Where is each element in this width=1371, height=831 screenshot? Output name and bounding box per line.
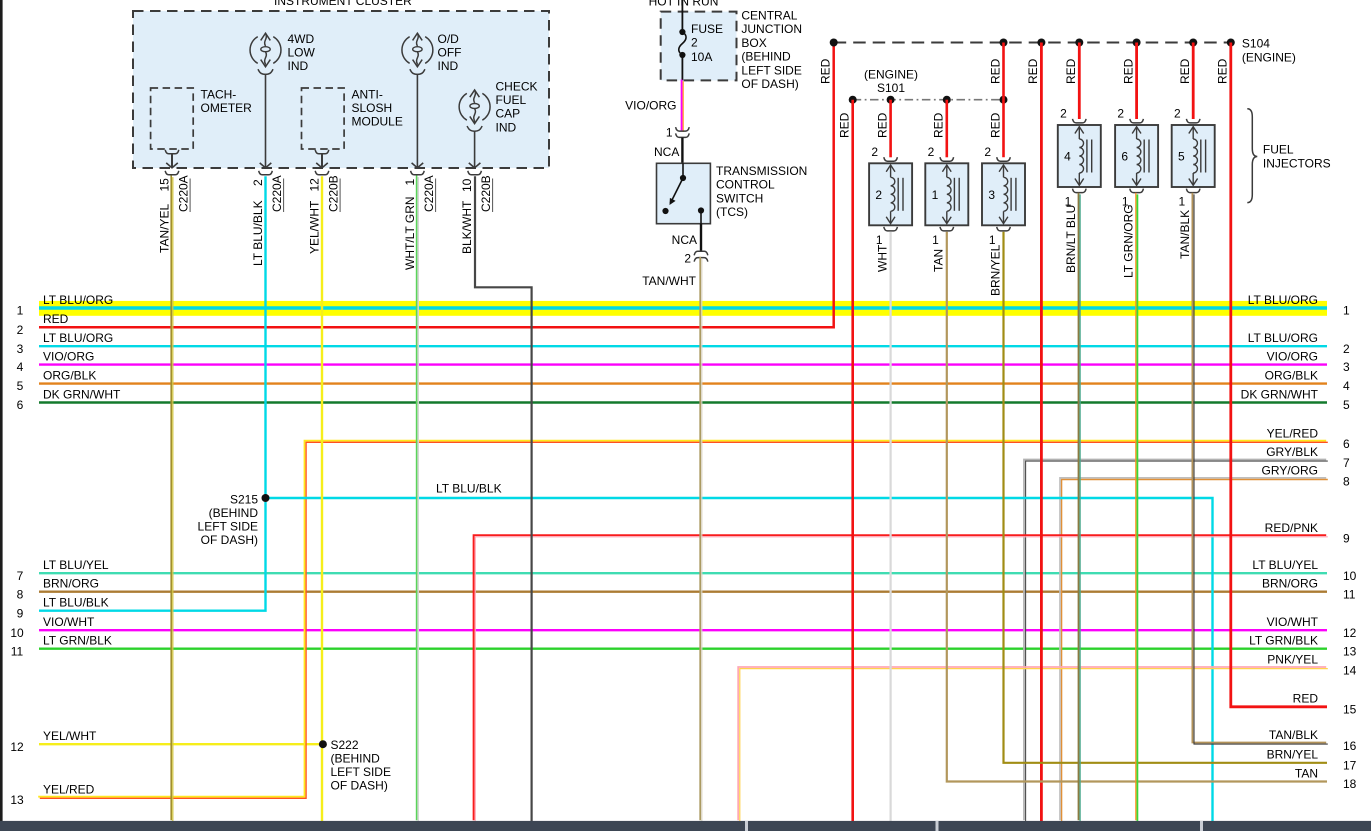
svg-text:RED: RED — [1216, 58, 1230, 84]
svg-text:11: 11 — [11, 644, 24, 658]
svg-text:5: 5 — [1178, 150, 1185, 164]
wire RED S104 drop to bottom — [1040, 43, 1043, 822]
svg-text:12: 12 — [308, 178, 322, 192]
wire LT BLU/YEL (row 7 / right 10) — [39, 572, 1327, 574]
fuel injector 1 — [925, 157, 968, 231]
svg-text:8: 8 — [1343, 474, 1350, 488]
svg-text:RED: RED — [875, 112, 889, 138]
svg-text:C220B: C220B — [479, 175, 493, 212]
svg-text:CAP: CAP — [496, 107, 521, 121]
svg-text:RED: RED — [988, 112, 1002, 138]
svg-text:GRY/ORG: GRY/ORG — [1262, 464, 1318, 478]
wire BRN/YEL from injector 3 pin 1 to right edge (right 17) — [1004, 232, 1328, 763]
junction on S104 at x=1041.4 — [1037, 39, 1045, 47]
junction on S104 at x=833.7 — [830, 39, 838, 47]
svg-text:LEFT SIDE: LEFT SIDE — [741, 63, 801, 77]
svg-text:LT BLU/BLK: LT BLU/BLK — [436, 482, 502, 496]
svg-text:GRY/BLK: GRY/BLK — [1266, 445, 1318, 459]
svg-text:2: 2 — [1343, 342, 1350, 356]
splice S215 — [262, 494, 270, 502]
svg-text:OF DASH): OF DASH) — [331, 779, 388, 793]
svg-text:RED: RED — [932, 112, 946, 138]
svg-text:7: 7 — [17, 569, 24, 583]
splice S222 — [319, 740, 327, 748]
svg-text:18: 18 — [1343, 777, 1357, 791]
svg-text:10: 10 — [10, 626, 24, 640]
svg-text:IND: IND — [438, 59, 459, 73]
inline connector at TCS pin 1 — [676, 127, 690, 137]
central junction box label — [741, 9, 802, 92]
fuel injector 2 — [869, 157, 912, 231]
svg-text:TAN: TAN — [932, 249, 946, 272]
wire RED (row 2) to S104 — [39, 44, 834, 327]
wire RED S104 to injector 6 — [1135, 43, 1138, 120]
splice bus S104 (ENGINE) — [834, 42, 1231, 44]
anti-slosh output lead and connector at cluster edge — [315, 150, 329, 175]
svg-text:BRN/YEL: BRN/YEL — [1267, 748, 1319, 762]
svg-text:4: 4 — [17, 360, 24, 374]
svg-text:LEFT SIDE: LEFT SIDE — [198, 520, 258, 534]
svg-text:IND: IND — [496, 121, 517, 135]
svg-text:(BEHIND: (BEHIND — [331, 752, 381, 766]
bottom panel bar — [0, 821, 1371, 831]
wire RED S104 to S101 and injector 3 — [1002, 43, 1005, 158]
TCS label — [716, 164, 807, 219]
svg-text:C220A: C220A — [270, 175, 284, 212]
svg-text:8: 8 — [17, 587, 24, 601]
svg-text:3: 3 — [1343, 360, 1350, 374]
svg-text:DK GRN/WHT: DK GRN/WHT — [43, 387, 121, 401]
svg-text:VIO/ORG: VIO/ORG — [1267, 349, 1318, 363]
svg-text:ORG/BLK: ORG/BLK — [43, 368, 96, 382]
svg-text:CENTRAL: CENTRAL — [741, 9, 797, 23]
svg-text:CONTROL: CONTROL — [716, 178, 775, 192]
svg-text:S222: S222 — [331, 738, 359, 752]
svg-text:OF DASH): OF DASH) — [201, 533, 258, 547]
svg-text:2: 2 — [251, 179, 265, 186]
svg-text:16: 16 — [1343, 739, 1357, 753]
junction on S104 at x=1079.3 — [1075, 39, 1083, 47]
svg-text:OFF: OFF — [438, 46, 462, 60]
svg-text:RED: RED — [1178, 58, 1192, 84]
svg-text:9: 9 — [1343, 532, 1350, 546]
svg-text:TACH-: TACH- — [201, 88, 237, 102]
svg-text:7: 7 — [1343, 456, 1350, 470]
wire YEL/RED (row 13) — [38, 441, 1326, 797]
svg-text:FUEL: FUEL — [1263, 143, 1294, 157]
4WD LOW bulb output lead and connector at cluster edge — [259, 74, 273, 175]
fuel injector 3 — [982, 157, 1025, 231]
svg-text:YEL/WHT: YEL/WHT — [308, 200, 322, 254]
fuel injector 4 — [1058, 119, 1101, 193]
svg-text:PNK/YEL: PNK/YEL — [1267, 653, 1318, 667]
svg-text:OMETER: OMETER — [201, 101, 253, 115]
svg-text:RED: RED — [819, 58, 833, 84]
svg-text:DK GRN/WHT: DK GRN/WHT — [1241, 387, 1319, 401]
svg-text:SWITCH: SWITCH — [716, 191, 763, 205]
svg-text:LT BLU/BLK: LT BLU/BLK — [251, 200, 265, 266]
svg-text:1: 1 — [666, 126, 673, 140]
fuel injector 6 — [1115, 119, 1158, 193]
svg-text:RED: RED — [1121, 58, 1135, 84]
svg-text:LOW: LOW — [288, 46, 316, 60]
svg-text:TAN: TAN — [1295, 766, 1318, 780]
svg-text:YEL/RED: YEL/RED — [43, 782, 95, 796]
svg-text:10: 10 — [460, 178, 474, 192]
svg-text:2: 2 — [691, 36, 698, 50]
svg-text:TAN/WHT: TAN/WHT — [642, 274, 696, 288]
svg-text:LT BLU/YEL: LT BLU/YEL — [1252, 558, 1318, 572]
svg-text:WHT: WHT — [875, 244, 889, 272]
svg-text:RED/PNK: RED/PNK — [1265, 521, 1318, 535]
svg-text:4: 4 — [1064, 150, 1071, 164]
svg-text:INSTRUMENT CLUSTER: INSTRUMENT CLUSTER — [274, 0, 412, 8]
svg-text:RED: RED — [1293, 692, 1319, 706]
bottom bar separator 2 — [936, 821, 939, 831]
svg-text:S215: S215 — [230, 493, 258, 507]
tachometer output lead and connector at cluster edge — [165, 150, 179, 175]
wire DK GRN/WHT (row 6) — [39, 401, 1327, 403]
svg-text:RED: RED — [838, 112, 852, 138]
instrument cluster box — [133, 11, 549, 168]
svg-text:9: 9 — [17, 606, 24, 620]
svg-text:SLOSH: SLOSH — [352, 101, 393, 115]
svg-text:BRN/ORG: BRN/ORG — [1262, 577, 1318, 591]
svg-text:4: 4 — [1343, 379, 1350, 393]
svg-text:2: 2 — [984, 145, 991, 159]
svg-text:YEL/RED: YEL/RED — [1267, 426, 1319, 440]
svg-text:3: 3 — [17, 342, 24, 356]
tachometer (dashed box) — [151, 88, 194, 149]
junction on S104 at x=1003.5 — [1000, 39, 1008, 47]
svg-text:O/D: O/D — [438, 32, 460, 46]
svg-text:1: 1 — [17, 304, 24, 318]
wire VIO/WHT (row 10 / right 12) — [39, 629, 1327, 631]
junction on S101 at x=890.6 — [887, 96, 895, 104]
svg-text:NCA: NCA — [654, 145, 679, 159]
junction on S101 at x=1003.5 — [1000, 96, 1008, 104]
svg-text:1: 1 — [1179, 195, 1186, 209]
svg-text:RED: RED — [1026, 58, 1040, 84]
svg-text:15: 15 — [158, 178, 172, 192]
svg-text:1: 1 — [1343, 304, 1350, 318]
4WD LOW indicator bulb — [250, 32, 315, 74]
svg-text:C220B: C220B — [327, 175, 341, 212]
wire VIO/ORG (row 4) — [39, 363, 1327, 365]
svg-text:6: 6 — [1343, 437, 1350, 451]
svg-text:(ENGINE): (ENGINE) — [1242, 51, 1296, 65]
svg-text:BRN/ORG: BRN/ORG — [43, 577, 99, 591]
wire LT BLU/ORG (row 3) — [39, 345, 1327, 347]
svg-text:LT BLU/ORG: LT BLU/ORG — [43, 293, 113, 307]
O/D OFF bulb output lead and connector at cluster edge — [411, 74, 425, 175]
NCA wire out of TCS — [700, 224, 702, 251]
svg-text:11: 11 — [1343, 587, 1356, 601]
wire WHT from injector 2 pin 1 — [889, 232, 891, 821]
svg-text:3: 3 — [988, 188, 995, 202]
fuel injector 5 — [1172, 119, 1215, 193]
svg-text:10: 10 — [1343, 569, 1357, 583]
svg-text:TAN/BLK: TAN/BLK — [1178, 210, 1192, 259]
svg-text:BRN/YEL: BRN/YEL — [988, 244, 1002, 296]
wire WHT/LT GRN from O/D OFF pin 1 — [416, 176, 418, 821]
svg-text:4WD: 4WD — [288, 32, 315, 46]
svg-text:2: 2 — [1060, 107, 1067, 121]
wire VIO/ORG from fuse to TCS — [681, 80, 683, 131]
wire GRY/BLK (right 7) — [1024, 460, 1326, 821]
wire RED S101 to injector 2 — [889, 100, 892, 158]
svg-text:S104: S104 — [1242, 37, 1270, 51]
wire LT BLU/BLK branch from S215 — [266, 498, 1213, 821]
svg-text:RED: RED — [1064, 58, 1078, 84]
O/D OFF indicator bulb — [402, 32, 462, 74]
wire from HOT IN RUN into fuse — [681, 0, 683, 32]
svg-text:VIO/WHT: VIO/WHT — [1267, 615, 1319, 629]
svg-text:LT BLU/ORG: LT BLU/ORG — [1248, 331, 1318, 345]
svg-text:NCA: NCA — [672, 233, 697, 247]
svg-text:LT BLU/ORG: LT BLU/ORG — [1248, 293, 1318, 307]
svg-text:S101: S101 — [877, 81, 905, 95]
fuse 2 10A — [679, 22, 723, 80]
wire GRY/ORG (right 8) — [1060, 478, 1326, 820]
svg-text:6: 6 — [17, 398, 24, 412]
wire RED S104 to right edge (right 15) — [1231, 43, 1327, 707]
svg-text:2: 2 — [1174, 107, 1181, 121]
wire TAN from injector 1 pin 1 to right edge (right 18) — [947, 232, 1327, 782]
svg-text:1: 1 — [932, 233, 939, 247]
svg-text:15: 15 — [1343, 702, 1357, 716]
wire LT BLU/BLK from 4WD LOW pin 2 to S215 — [264, 176, 266, 498]
svg-text:2: 2 — [1117, 107, 1124, 121]
central junction box — [661, 12, 737, 81]
svg-text:C220A: C220A — [177, 175, 191, 212]
anti-slosh module (dashed box) — [302, 88, 345, 149]
svg-text:(ENGINE): (ENGINE) — [864, 68, 918, 82]
svg-text:BLK/WHT: BLK/WHT — [460, 200, 474, 254]
wire RED/PNK (right 9) — [474, 535, 1327, 820]
bottom bar separator 1 — [745, 821, 748, 831]
wire BLK/WHT from CHECK FUEL CAP pin 10 — [475, 176, 532, 821]
svg-text:RED: RED — [988, 58, 1002, 84]
svg-text:C220A: C220A — [422, 175, 436, 212]
wire ORG/BLK (row 5) — [39, 382, 1327, 384]
wire RED S101 feed from S104 tap to bottom — [851, 100, 854, 821]
svg-text:TAN/BLK: TAN/BLK — [1269, 728, 1318, 742]
transmission control switch (TCS) — [657, 163, 711, 223]
wire TAN/WHT from TCS pin 2 — [699, 257, 701, 821]
svg-text:5: 5 — [17, 379, 24, 393]
svg-text:(BEHIND: (BEHIND — [209, 506, 259, 520]
svg-text:5: 5 — [1343, 398, 1350, 412]
junction on S101 at x=946.8 — [943, 96, 951, 104]
svg-text:BRN/LT BLU: BRN/LT BLU — [1064, 205, 1078, 273]
svg-text:6: 6 — [1121, 150, 1128, 164]
svg-text:TRANSMISSION: TRANSMISSION — [716, 164, 807, 178]
svg-text:OF DASH): OF DASH) — [741, 77, 798, 91]
svg-text:HOT IN RUN: HOT IN RUN — [649, 0, 719, 9]
wire RED S104 to injector 5 — [1192, 43, 1195, 120]
left page border strip — [0, 0, 3, 831]
wire RED S104 to injector 4 — [1078, 43, 1081, 120]
svg-text:VIO/WHT: VIO/WHT — [43, 615, 95, 629]
wire PNK/YEL (right 14) — [738, 667, 1326, 820]
svg-text:13: 13 — [1343, 644, 1357, 658]
wire TAN/YEL from tachometer pin 15 — [170, 176, 172, 821]
svg-text:CHECK: CHECK — [496, 80, 538, 94]
svg-text:2: 2 — [928, 145, 935, 159]
wire YEL/WHT (row 12) to splice S222 — [39, 743, 323, 745]
svg-text:(TCS): (TCS) — [716, 205, 748, 219]
svg-text:14: 14 — [1343, 663, 1357, 677]
svg-text:INJECTORS: INJECTORS — [1263, 157, 1331, 171]
wire TAN/BLK from injector 5 pin 1 to right edge (right 16) — [1192, 193, 1326, 743]
wire LT BLU/ORG (row 1, highlighted) — [39, 306, 1327, 309]
svg-text:1: 1 — [403, 179, 417, 186]
wire RED S101 to injector 1 — [945, 100, 948, 158]
svg-text:TAN/YEL: TAN/YEL — [158, 204, 172, 253]
CHECK FUEL CAP indicator bulb — [459, 80, 537, 135]
svg-text:2: 2 — [684, 252, 691, 266]
svg-text:LT GRN/BLK: LT GRN/BLK — [1249, 634, 1318, 648]
svg-text:2: 2 — [875, 188, 882, 202]
wire LT GRN/ORG from injector 6 pin 1 — [1135, 193, 1137, 820]
wire LT GRN/BLK (row 11 / right 13) — [39, 648, 1327, 650]
splice bus S101 (ENGINE) — [853, 99, 1004, 101]
svg-text:2: 2 — [17, 323, 24, 337]
wire BRN/LT BLU from injector 4 pin 1 — [1078, 193, 1080, 820]
svg-text:LT BLU/ORG: LT BLU/ORG — [43, 331, 113, 345]
svg-text:10A: 10A — [691, 50, 712, 64]
junction on S104 at x=1136.6 — [1133, 39, 1141, 47]
svg-text:2: 2 — [871, 145, 878, 159]
junction on S101 at x=852.7 — [849, 96, 857, 104]
wire YEL/WHT from anti-slosh pin 12 through S222 — [321, 176, 323, 821]
svg-text:IND: IND — [288, 59, 309, 73]
wire BRN/ORG (row 8 / right 11) — [39, 591, 1327, 593]
junction on S104 at x=1193.2 — [1189, 39, 1197, 47]
svg-text:LT GRN/BLK: LT GRN/BLK — [43, 634, 112, 648]
svg-text:LEFT SIDE: LEFT SIDE — [331, 765, 391, 779]
svg-text:MODULE: MODULE — [352, 115, 403, 129]
svg-text:ORG/BLK: ORG/BLK — [1265, 368, 1318, 382]
svg-text:LT GRN/ORG: LT GRN/ORG — [1121, 204, 1135, 278]
NCA wire into TCS — [681, 138, 683, 164]
inline connector at TCS pin 2 — [694, 251, 708, 261]
svg-text:(BEHIND: (BEHIND — [741, 50, 791, 64]
svg-text:JUNCTION: JUNCTION — [741, 22, 802, 36]
bottom bar separator 3 — [1200, 821, 1203, 831]
wire LT BLU/BLK (row 9) to splice S215 — [39, 502, 266, 611]
svg-text:VIO/ORG: VIO/ORG — [43, 349, 94, 363]
svg-text:YEL/WHT: YEL/WHT — [43, 729, 97, 743]
svg-text:1: 1 — [932, 188, 939, 202]
highlighted wire band (selected trace) — [39, 301, 1327, 316]
svg-text:FUSE: FUSE — [691, 22, 723, 36]
CHECK FUEL CAP bulb output lead and connector at cluster edge — [468, 131, 482, 175]
junction on S104 at x=1230.8 — [1227, 39, 1235, 47]
svg-text:WHT/LT GRN: WHT/LT GRN — [403, 196, 417, 270]
svg-text:ANTI-: ANTI- — [352, 88, 383, 102]
svg-text:VIO/ORG: VIO/ORG — [625, 99, 676, 113]
svg-text:RED: RED — [43, 312, 69, 326]
svg-text:LT BLU/YEL: LT BLU/YEL — [43, 558, 109, 572]
svg-text:17: 17 — [1343, 758, 1357, 772]
svg-text:12: 12 — [10, 740, 24, 754]
svg-text:LT BLU/BLK: LT BLU/BLK — [43, 596, 109, 610]
svg-text:12: 12 — [1343, 626, 1357, 640]
svg-text:FUEL: FUEL — [496, 93, 527, 107]
fuel injectors brace — [1247, 109, 1257, 203]
svg-text:BOX: BOX — [741, 36, 766, 50]
svg-text:13: 13 — [10, 793, 24, 807]
